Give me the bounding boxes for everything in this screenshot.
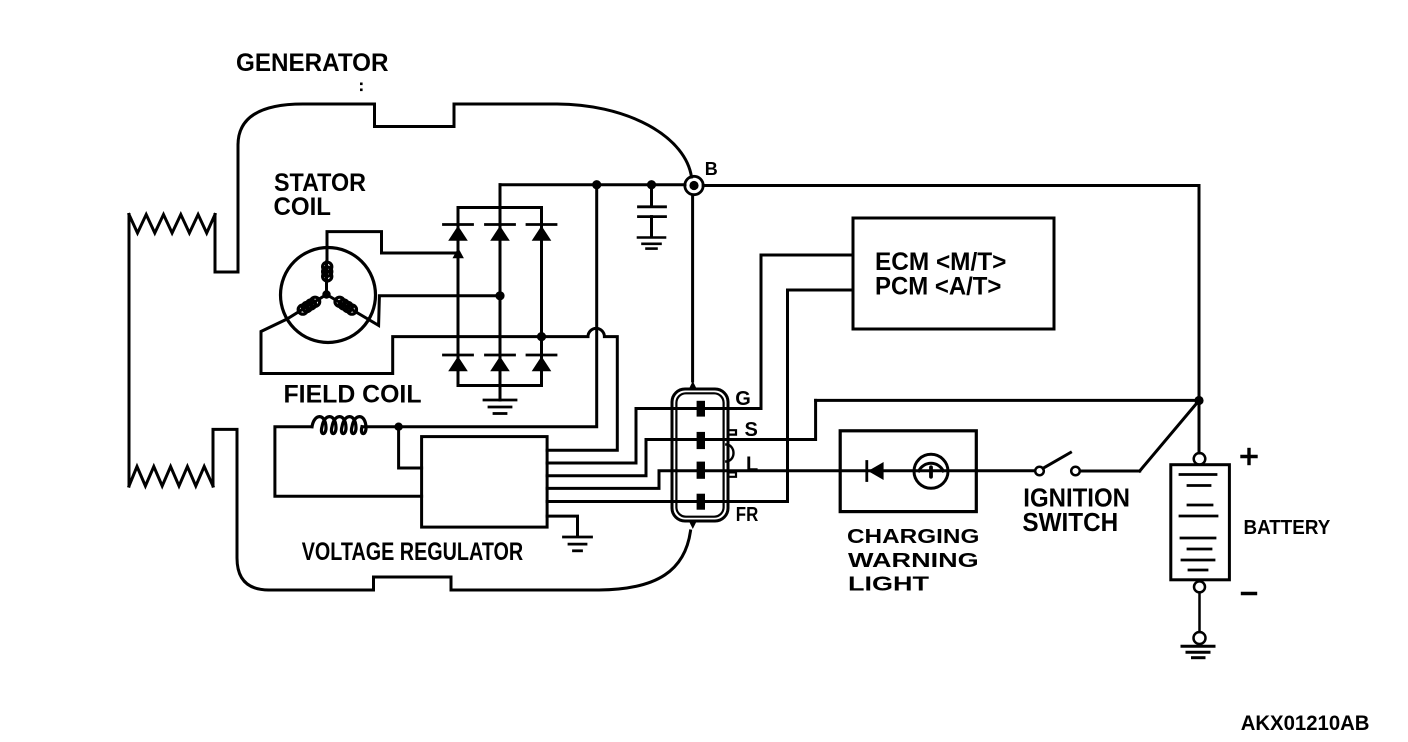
regulator ground xyxy=(564,537,592,551)
scan artifact dots xyxy=(360,83,363,86)
battery ground xyxy=(1182,646,1214,657)
battery box xyxy=(1171,465,1230,580)
diode D4 bottom (column1) xyxy=(444,355,473,371)
node B inner dot xyxy=(689,181,698,190)
wire: regulator FR output to ECM xyxy=(547,290,853,502)
svg-text:FIELD COIL: FIELD COIL xyxy=(284,381,422,409)
wire: regulator ground lead xyxy=(547,516,577,534)
junction dot on B line at field-coil drop xyxy=(592,180,601,189)
connector pin S xyxy=(697,432,705,449)
wire: battery feed drop xyxy=(1198,186,1201,454)
connector outer shell xyxy=(672,389,728,521)
connector pin FR xyxy=(697,494,705,510)
stator top winding curls xyxy=(323,262,332,281)
svg-text:COIL: COIL xyxy=(274,193,332,221)
wire: field coil left lead loop to regulator xyxy=(275,427,422,497)
svg-text:SWITCH: SWITCH xyxy=(1022,509,1118,537)
battery negative terminal circle xyxy=(1194,581,1205,592)
lamp outer circle xyxy=(914,454,948,488)
diode D2 top (column2) xyxy=(486,225,515,241)
svg-text:L: L xyxy=(746,454,758,476)
diode D1 top (column1) xyxy=(444,225,473,241)
wire: regulator G output xyxy=(547,255,853,463)
wire: diagonal up to battery junction xyxy=(1140,401,1199,472)
connector side tab lower xyxy=(728,472,736,476)
wire: field coil junction down to regulator xyxy=(399,427,422,468)
capacitor lead to ground xyxy=(650,217,653,236)
capacitor ground xyxy=(638,238,665,249)
wire: S sense line to battery junction xyxy=(816,399,1199,402)
junction dot field coil right end xyxy=(394,423,402,431)
capacitor lead from B line xyxy=(650,185,653,205)
rectifier column 2 xyxy=(499,208,502,386)
rotor left vertical wire xyxy=(128,215,131,487)
svg-text:CHARGING: CHARGING xyxy=(847,526,979,548)
lamp inner arc xyxy=(919,463,943,471)
lamp filament stem xyxy=(929,467,933,477)
junction dot battery/sense xyxy=(1194,396,1203,405)
diode D3 top (column3) xyxy=(527,225,556,241)
rectifier top bus xyxy=(458,206,542,209)
svg-text:LIGHT: LIGHT xyxy=(848,574,929,596)
ignition switch right contact circle xyxy=(1071,467,1080,476)
wire: field coil right lead to B drop xyxy=(362,185,597,427)
B line (rectifier output to node B) xyxy=(500,183,685,186)
capacitor plates xyxy=(639,207,666,217)
svg-text:PCM <A/T>: PCM <A/T> xyxy=(875,273,1001,301)
connector side latch arc xyxy=(726,445,733,462)
battery ground circle xyxy=(1194,632,1206,644)
ignition switch blade xyxy=(1043,453,1071,469)
rectifier ground xyxy=(484,400,516,414)
svg-text:WARNING: WARNING xyxy=(848,550,979,572)
battery minus sign xyxy=(1243,592,1256,595)
wire: stator phase 2 to rectifier column 2 xyxy=(327,295,501,326)
junction dot phase3/column3 xyxy=(537,332,546,341)
svg-text:B: B xyxy=(705,159,718,179)
rectifier column 3 xyxy=(540,208,543,386)
svg-text:FR: FR xyxy=(736,504,759,526)
battery plus sign xyxy=(1242,450,1256,464)
stator coil circle xyxy=(281,248,376,343)
svg-text:G: G xyxy=(735,388,751,410)
node B outer circle xyxy=(685,176,703,194)
stator winding line up from center xyxy=(325,262,328,295)
svg-text:VOLTAGE REGULATOR: VOLTAGE REGULATOR xyxy=(302,538,524,566)
battery cell plates xyxy=(1180,475,1217,571)
phase1 junction arrow on column 1 xyxy=(453,248,464,258)
B line right (node B to battery drop) xyxy=(703,184,1199,187)
stator lower-left winding curls xyxy=(298,297,320,314)
wire: column 2 up to B line xyxy=(499,185,502,208)
rotor zigzag upper xyxy=(129,215,215,234)
wire: stator phase 1 to rectifier column 1 xyxy=(327,232,458,262)
ignition switch left contact circle xyxy=(1035,467,1044,476)
svg-text:BATTERY: BATTERY xyxy=(1244,517,1331,539)
voltage regulator box xyxy=(422,437,547,527)
connector top tab xyxy=(689,381,697,390)
generator housing outline: bottom edge with notch and curve to connector xyxy=(269,531,691,590)
svg-text:GENERATOR: GENERATOR xyxy=(236,49,389,77)
wire: column 2 down to rectifier ground xyxy=(499,386,502,401)
wire: node B down to connector top (housing boundary) xyxy=(691,195,694,381)
ECM/PCM box xyxy=(853,218,1054,329)
rotor zigzag lower xyxy=(129,467,213,487)
connector side tab upper xyxy=(728,430,736,434)
diode D5 bottom (column2) xyxy=(486,355,515,371)
rectifier column 1 xyxy=(457,208,460,386)
stator center junction dot xyxy=(322,290,330,298)
charging warning light box xyxy=(840,431,976,512)
junction dot on B line at capacitor xyxy=(647,180,656,189)
connector bottom tab xyxy=(689,521,697,530)
generator housing outline: left edge upper segment xyxy=(215,145,238,272)
wire: switch to diagonal xyxy=(1080,470,1140,473)
connector pin G xyxy=(697,401,705,417)
svg-text:AKX01210AB: AKX01210AB xyxy=(1241,712,1370,735)
connector pin L xyxy=(697,462,705,479)
connector inner shell xyxy=(676,393,723,516)
wire: regulator S output xyxy=(547,400,816,475)
junction dot phase2/column2 xyxy=(495,291,504,300)
wire: regulator L output xyxy=(547,471,1035,489)
stator lower-right winding curls xyxy=(335,297,357,314)
generator housing outline: top edge with notch and curve to node B xyxy=(238,104,692,177)
rectifier bottom bus xyxy=(458,384,542,387)
wire: battery negative to ground xyxy=(1198,592,1201,632)
svg-text:S: S xyxy=(745,419,758,441)
battery positive terminal circle xyxy=(1194,453,1206,465)
field coil inductor xyxy=(312,417,366,434)
diode in charging box xyxy=(867,462,884,481)
diode D6 bottom (column3) xyxy=(527,355,556,371)
generator housing outline: left edge lower segment xyxy=(213,429,269,590)
wire: stator phase 3 down-left, around to rectifier column 3 and regulator P xyxy=(261,295,617,451)
